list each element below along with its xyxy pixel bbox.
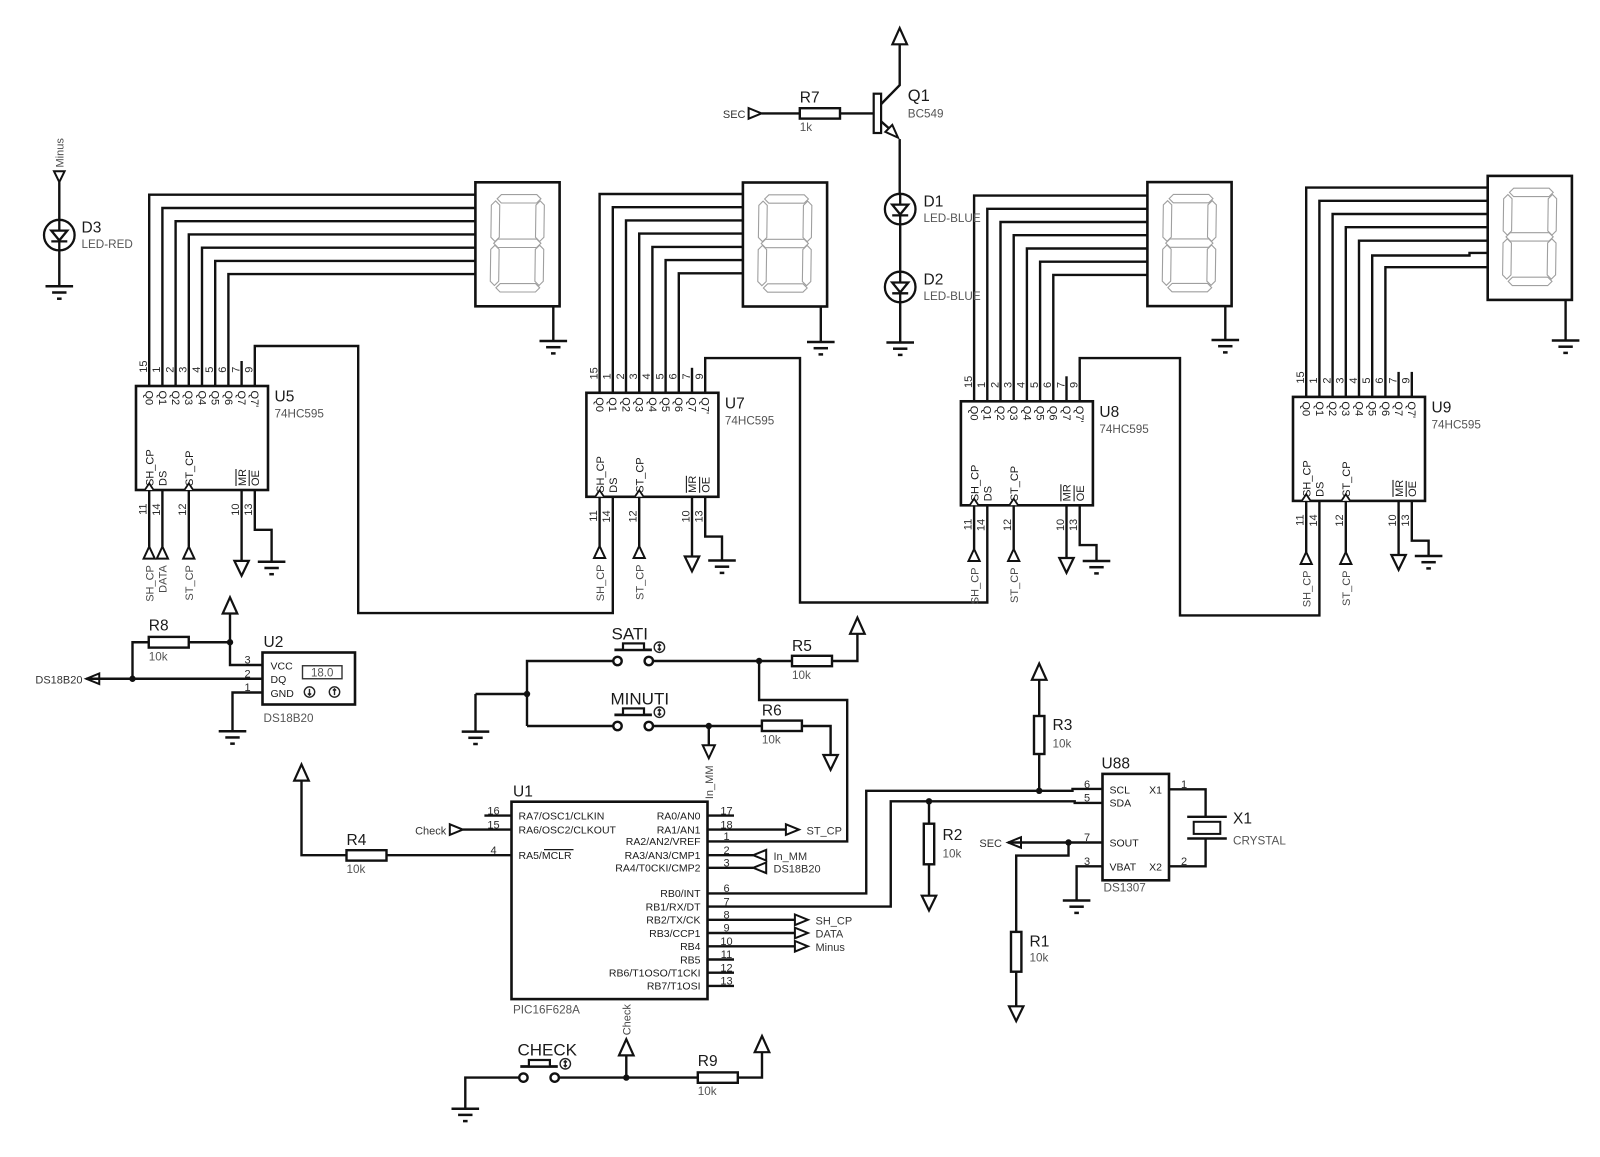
wire SATI junction to RA2	[708, 661, 848, 841]
resistor R2	[924, 824, 934, 865]
svg-text:14: 14	[1308, 514, 1320, 526]
svg-text:7: 7	[1055, 382, 1067, 388]
wire U7 ST_CP pin	[638, 497, 640, 546]
wire Minus to D3	[58, 182, 60, 220]
LED D1	[885, 194, 916, 225]
svg-text:SH_CP: SH_CP	[595, 565, 607, 602]
junction SATI/R5/RA2	[756, 658, 762, 664]
svg-text:1k: 1k	[800, 121, 813, 134]
svg-text:3: 3	[1003, 382, 1015, 388]
svg-text:RB0/INT: RB0/INT	[660, 888, 701, 900]
port DS18B20 (left)	[86, 673, 99, 684]
7-segment display DISP3	[1147, 182, 1231, 306]
wire U7 Q4 to display	[652, 247, 743, 393]
wire R5 to power	[832, 634, 857, 661]
shift register U9	[1293, 397, 1425, 501]
svg-text:OE: OE	[250, 470, 262, 486]
wire U5 SH_CP pin	[148, 490, 150, 547]
svg-text:R8: R8	[149, 618, 169, 635]
svg-text:1: 1	[1308, 377, 1320, 383]
svg-text:6: 6	[1042, 382, 1054, 388]
svg-text:2: 2	[989, 382, 1001, 388]
svg-text:4: 4	[641, 373, 653, 379]
svg-text:9: 9	[244, 367, 256, 373]
svg-text:VCC: VCC	[271, 660, 294, 672]
ground U5 OE	[258, 562, 286, 574]
svg-text:6: 6	[217, 367, 229, 373]
svg-text:Q4: Q4	[1020, 406, 1032, 421]
wire U9 Q3 to display	[1346, 227, 1488, 397]
svg-text:13: 13	[694, 510, 706, 522]
svg-text:RA1/AN1: RA1/AN1	[657, 824, 701, 836]
wire U5 Q7' serial out	[255, 346, 613, 613]
svg-text:Q6: Q6	[1379, 401, 1391, 416]
svg-text:Q3: Q3	[1007, 406, 1019, 421]
wire U5 DS pin	[161, 490, 163, 547]
svg-text:ST_CP: ST_CP	[184, 451, 196, 486]
wire U9 Q2 to display	[1333, 214, 1488, 397]
svg-text:Q1: Q1	[1313, 401, 1325, 416]
svg-text:Q6: Q6	[222, 391, 234, 406]
svg-text:SATI: SATI	[612, 625, 649, 644]
power arrow VCC U2	[223, 597, 238, 613]
svg-text:Q7': Q7'	[248, 391, 260, 408]
wire DISP3 common to ground	[1224, 306, 1226, 340]
svg-text:In_MM: In_MM	[774, 851, 808, 863]
U1 left pin numbers	[487, 805, 499, 857]
shift register U8	[961, 401, 1093, 505]
wire VBAT to ground	[1077, 866, 1103, 900]
svg-text:Q4: Q4	[195, 391, 207, 406]
svg-text:Q0: Q0	[593, 397, 605, 412]
wire U8 Q3 to display	[1014, 235, 1148, 401]
svg-text:Q3: Q3	[1339, 401, 1351, 416]
U8 control pin labels	[969, 465, 1087, 502]
svg-text:7: 7	[1387, 377, 1399, 383]
svg-text:Q7: Q7	[235, 391, 247, 406]
junction MINUTI/In_MM/R6	[706, 723, 712, 729]
svg-text:ST_CP: ST_CP	[1341, 571, 1353, 606]
wire SATI right to junction	[653, 660, 759, 662]
wire U7 Q2 to display	[626, 220, 743, 392]
wire U9 OE pin	[1412, 501, 1429, 556]
svg-text:OE: OE	[1075, 485, 1087, 501]
U8 top pin numbers	[963, 376, 1081, 388]
power-down arrow U9 MR	[1391, 555, 1405, 570]
svg-text:LED-BLUE: LED-BLUE	[924, 212, 981, 225]
junction DQ/R8	[129, 676, 135, 682]
push button SATI	[613, 642, 664, 665]
wire U9 Q7 stub	[1397, 372, 1399, 397]
U8 SH_CP clock mark	[970, 499, 979, 506]
wire DISP1 common to ground	[552, 306, 554, 341]
U9 ST_CP clock mark	[1341, 494, 1350, 501]
svg-text:1: 1	[151, 367, 163, 373]
sensor U2 DS18B20	[263, 653, 356, 705]
U1 right pin numbers	[720, 805, 732, 987]
svg-text:Q6: Q6	[672, 397, 684, 412]
ground buttons	[462, 732, 490, 744]
svg-text:CHECK: CHECK	[518, 1041, 578, 1060]
U7 SH_CP clock mark	[595, 490, 604, 497]
wire D1 to D2	[899, 224, 901, 272]
svg-text:6: 6	[668, 373, 680, 379]
svg-text:MR: MR	[687, 476, 699, 493]
wire U1 pin16 stub	[484, 814, 511, 816]
wire MINUTI left	[527, 725, 613, 727]
wire R8 right to junction	[189, 641, 230, 643]
wire U8 Q7' serial out	[1080, 358, 1320, 615]
svg-text:3: 3	[1335, 377, 1347, 383]
wire U8 Q5 to display	[1040, 262, 1147, 402]
svg-text:9: 9	[694, 373, 706, 379]
7-segment display DISP1	[475, 182, 559, 306]
svg-text:10k: 10k	[1053, 738, 1072, 751]
svg-text:R5: R5	[792, 638, 812, 655]
wire SDA to R2	[928, 801, 930, 823]
port DATA input U5	[157, 547, 168, 559]
power-down arrow R6	[823, 755, 837, 770]
wire Check arrow stem	[625, 1055, 627, 1078]
svg-text:RA3/AN3/CMP1: RA3/AN3/CMP1	[625, 850, 701, 862]
wire R6 to down arrow	[802, 726, 831, 755]
ground DISP2	[807, 342, 835, 354]
svg-text:7: 7	[681, 373, 693, 379]
svg-text:11: 11	[138, 504, 150, 515]
svg-text:RB4: RB4	[680, 941, 701, 953]
wire ground stem	[474, 694, 476, 732]
microcontroller U1 PIC16F628A	[512, 802, 708, 999]
svg-text:Q2: Q2	[994, 406, 1006, 421]
svg-text:RA2/AN2/VREF: RA2/AN2/VREF	[626, 836, 701, 848]
svg-text:SH_CP: SH_CP	[145, 565, 157, 602]
svg-text:SEC: SEC	[723, 109, 746, 121]
svg-text:DS18B20: DS18B20	[35, 674, 82, 686]
svg-text:10: 10	[1387, 514, 1399, 526]
wire U8 SH_CP pin	[973, 505, 975, 549]
resistor R4	[347, 850, 387, 860]
resistor R3	[1034, 716, 1044, 754]
shift register U5	[136, 386, 268, 490]
wire U1 pin6 to SCL	[708, 789, 1103, 894]
svg-text:Q7: Q7	[685, 397, 697, 412]
resistor R9	[698, 1072, 738, 1082]
U5 bottom pin numbers	[138, 504, 256, 516]
svg-text:R4: R4	[347, 832, 367, 849]
port Check input	[450, 824, 463, 835]
ground U8 OE	[1083, 561, 1111, 573]
svg-text:ST_CP: ST_CP	[1341, 461, 1353, 496]
ground CHECK	[452, 1109, 480, 1121]
svg-text:RB1/RX/DT: RB1/RX/DT	[646, 901, 701, 913]
svg-text:4: 4	[1016, 382, 1028, 388]
port ST_CP input U9	[1340, 552, 1351, 564]
svg-text:RA7/OSC1/CLKIN: RA7/OSC1/CLKIN	[519, 810, 605, 822]
wire power to R4	[302, 781, 347, 856]
svg-text:DS18B20: DS18B20	[774, 864, 821, 876]
svg-text:U5: U5	[275, 389, 295, 406]
svg-text:10k: 10k	[698, 1085, 717, 1098]
svg-text:DS: DS	[608, 478, 620, 493]
wire U8 Q0 to display	[974, 196, 1147, 402]
svg-text:Q2: Q2	[619, 397, 631, 412]
wire U9 Q1 to display	[1319, 201, 1487, 397]
svg-text:11: 11	[963, 519, 975, 530]
svg-text:14: 14	[601, 510, 613, 522]
wire U8 Q6 to display	[1053, 275, 1147, 401]
power arrow R9	[755, 1036, 770, 1052]
wire U1 pin3 to DS18B20	[708, 867, 754, 869]
svg-text:74HC595: 74HC595	[275, 408, 325, 421]
svg-text:MR: MR	[1394, 480, 1406, 497]
port SEC input (top)	[749, 108, 762, 119]
U2 pin numbers	[244, 655, 250, 695]
resistor R6	[762, 721, 802, 731]
junction R2/SDA	[926, 798, 932, 804]
shift register U7	[586, 393, 718, 497]
U5 control pin labels	[144, 449, 262, 486]
wire DISP2 common to ground	[820, 307, 822, 343]
wire U9 Q0 to display	[1306, 188, 1488, 397]
transistor Q1 base bar	[874, 94, 881, 133]
wire U7 Q0 to display	[600, 194, 743, 393]
wire R9 to power	[738, 1052, 762, 1077]
wire U7 Q7 stub	[691, 368, 693, 393]
wire U9 SH_CP pin	[1305, 501, 1307, 552]
U5 ST_CP clock mark	[184, 483, 193, 490]
svg-text:U88: U88	[1102, 755, 1130, 772]
U1 right pin names	[609, 810, 701, 992]
svg-text:Q4: Q4	[1352, 401, 1364, 416]
svg-text:X1: X1	[1233, 811, 1252, 828]
U9 SH_CP clock mark	[1302, 494, 1311, 501]
power-down arrow U7 MR	[685, 557, 699, 572]
wire U5 Q7 stub	[240, 361, 242, 386]
LED D3	[44, 220, 75, 251]
power arrow R5	[850, 618, 865, 634]
svg-text:DATA: DATA	[158, 564, 170, 592]
wire SEC to R7	[762, 112, 800, 114]
wire U1 pin15 to Check	[463, 828, 512, 830]
wire Q1 emitter	[881, 121, 889, 128]
port DS18B20 input (U1)	[753, 863, 766, 874]
port SH_CP input U9	[1301, 552, 1312, 564]
U5 output pin labels Q0-Q7'	[143, 391, 261, 408]
svg-text:74HC595: 74HC595	[725, 414, 775, 427]
svg-text:U7: U7	[725, 395, 745, 412]
svg-text:ST_CP: ST_CP	[1009, 568, 1021, 603]
power arrow R4	[294, 764, 309, 780]
svg-text:DATA: DATA	[816, 929, 844, 941]
port ST_CP input U8	[1008, 549, 1019, 561]
svg-text:RA5/MCLR: RA5/MCLR	[519, 850, 573, 862]
U7 control pin labels	[595, 456, 713, 493]
svg-text:LED-BLUE: LED-BLUE	[924, 290, 981, 303]
U9 bottom pin numbers	[1295, 514, 1413, 526]
svg-text:SOUT: SOUT	[1110, 838, 1140, 850]
svg-text:RB3/CCP1: RB3/CCP1	[649, 928, 701, 940]
wire DISP4 common to ground	[1564, 300, 1566, 341]
wire junction to R5	[759, 660, 792, 662]
port SH_CP input U7	[594, 546, 605, 558]
port ST_CP output	[786, 824, 799, 835]
wire U8 Q7 stub	[1065, 376, 1067, 401]
svg-text:13: 13	[243, 504, 255, 516]
svg-text:12: 12	[1002, 519, 1014, 531]
resistor R8	[149, 637, 189, 648]
svg-text:12: 12	[177, 504, 189, 516]
svg-text:Q5: Q5	[1034, 406, 1046, 421]
svg-text:6: 6	[1374, 377, 1386, 383]
svg-text:CRYSTAL: CRYSTAL	[1233, 835, 1286, 848]
svg-text:9: 9	[1401, 377, 1413, 383]
wire U1 pin13 stub	[708, 985, 735, 987]
wire Q1 collector	[881, 44, 900, 104]
wire X1 pin to crystal	[1169, 789, 1206, 817]
svg-text:X1: X1	[1149, 784, 1162, 796]
svg-text:4: 4	[1348, 377, 1360, 383]
svg-text:Q5: Q5	[659, 397, 671, 412]
svg-text:DS18B20: DS18B20	[264, 712, 315, 725]
svg-text:1: 1	[602, 373, 614, 379]
svg-text:DQ: DQ	[271, 674, 287, 686]
svg-text:Check: Check	[622, 1004, 634, 1036]
wire junction to VCC pin	[230, 642, 263, 665]
U9 top pin numbers	[1295, 371, 1413, 383]
U5 top pin numbers	[138, 360, 256, 372]
wire MINUTI right	[653, 725, 762, 727]
svg-text:SH_CP: SH_CP	[969, 465, 981, 502]
U88 pin numbers	[1084, 779, 1187, 868]
svg-text:Q5: Q5	[209, 391, 221, 406]
wire U9 Q4 to display	[1359, 241, 1488, 397]
svg-text:Q7': Q7'	[1405, 401, 1417, 418]
wire U7 SH_CP pin	[598, 497, 600, 546]
svg-text:2: 2	[615, 373, 627, 379]
wire U1 pin12 stub	[708, 972, 735, 974]
port In_MM input (U1)	[753, 850, 766, 861]
svg-text:13: 13	[1068, 519, 1080, 531]
power-down arrow U5 MR	[234, 561, 248, 576]
svg-text:Q2: Q2	[169, 391, 181, 406]
wire CHECK right to R9	[559, 1076, 698, 1078]
7-segment display DISP2	[743, 183, 827, 307]
wire U9 Q7' stub	[1411, 372, 1413, 397]
svg-text:Q7': Q7'	[699, 397, 711, 414]
wire U7 Q7' serial out	[705, 358, 987, 602]
svg-text:OE: OE	[700, 477, 712, 493]
svg-text:RB6/T1OSO/T1CKI: RB6/T1OSO/T1CKI	[609, 968, 701, 980]
svg-text:2: 2	[1321, 377, 1333, 383]
wire U9 MR pin	[1397, 501, 1399, 555]
svg-text:Q0: Q0	[1300, 401, 1312, 416]
svg-text:5: 5	[654, 373, 666, 379]
power arrow Check	[619, 1039, 634, 1055]
svg-text:R3: R3	[1053, 717, 1073, 734]
7-segment display DISP4	[1488, 176, 1572, 300]
wire R1 to down arrow	[1015, 972, 1017, 1007]
svg-text:SH_CP: SH_CP	[1301, 460, 1313, 497]
svg-text:10k: 10k	[347, 863, 366, 876]
svg-text:X2: X2	[1149, 861, 1162, 873]
svg-text:15: 15	[963, 376, 975, 388]
wire U5 Q2 to display	[176, 221, 476, 386]
port Minus (down arrow)	[54, 171, 65, 182]
svg-text:5: 5	[1361, 377, 1373, 383]
U88 pin names	[1110, 784, 1163, 873]
wire power to R3	[1038, 680, 1040, 716]
port DATA output	[795, 928, 808, 939]
ground U88 VBAT	[1063, 901, 1091, 913]
wire U7 Q5 to display	[666, 260, 743, 393]
wire U7 OE pin	[705, 497, 722, 561]
svg-text:11: 11	[588, 510, 600, 521]
wire U1 pin18 to ST_CP	[708, 828, 786, 830]
port SH_CP input U8	[969, 549, 980, 561]
U7 bottom pin numbers	[588, 510, 706, 522]
wire U1 pin10 to Minus	[708, 945, 795, 947]
wire In_MM drop	[708, 726, 710, 745]
svg-text:R1: R1	[1030, 934, 1050, 951]
wire U9 ST_CP pin	[1345, 501, 1347, 552]
svg-text:ST_CP: ST_CP	[807, 825, 842, 837]
ground DISP4	[1552, 341, 1580, 353]
wire SEC to SOUT	[1008, 841, 1103, 843]
wire U8 ST_CP pin	[1013, 505, 1015, 549]
svg-text:1: 1	[723, 831, 729, 843]
crystal X1	[1187, 817, 1227, 839]
ground D2	[886, 343, 914, 355]
wire SATI left	[527, 661, 613, 726]
U7 output pin labels Q0-Q7'	[593, 397, 711, 414]
svg-text:Q7': Q7'	[1073, 406, 1085, 423]
svg-text:SH_CP: SH_CP	[144, 449, 156, 486]
svg-text:ST_CP: ST_CP	[184, 565, 196, 600]
svg-text:2: 2	[244, 668, 250, 680]
svg-text:GND: GND	[271, 688, 295, 700]
svg-text:1: 1	[976, 382, 988, 388]
wire U5 Q5 to display	[215, 261, 475, 386]
svg-text:14: 14	[976, 519, 988, 531]
svg-text:10k: 10k	[149, 651, 168, 664]
rtc U88 DS1307	[1103, 774, 1170, 880]
svg-text:RA6/OSC2/CLKOUT: RA6/OSC2/CLKOUT	[519, 824, 617, 836]
ground U7 OE	[708, 561, 736, 573]
wire U8 Q1 to display	[987, 209, 1147, 401]
wire U9 Q6 to display	[1385, 267, 1487, 397]
junction buttons/ground	[524, 691, 530, 697]
svg-text:7: 7	[230, 367, 242, 373]
wire U5 Q6 to display	[228, 274, 475, 386]
wire U7 Q3 to display	[639, 234, 743, 393]
junction SEC/R1	[1065, 839, 1071, 845]
U7 ST_CP clock mark	[635, 490, 644, 497]
svg-text:3: 3	[628, 373, 640, 379]
wire GND pin U2	[233, 693, 263, 732]
svg-text:R9: R9	[698, 1053, 718, 1070]
svg-text:SH_CP: SH_CP	[1302, 571, 1314, 608]
svg-text:15: 15	[1295, 371, 1307, 383]
wire U8 OE pin	[1080, 505, 1097, 561]
svg-text:Q0: Q0	[143, 391, 155, 406]
svg-text:10: 10	[230, 504, 242, 516]
svg-text:Q1: Q1	[981, 406, 993, 421]
svg-text:5: 5	[204, 367, 216, 373]
power-down arrow R2	[922, 896, 936, 911]
svg-text:RB2/TX/CK: RB2/TX/CK	[646, 915, 700, 927]
svg-text:SDA: SDA	[1110, 798, 1132, 810]
wire junction to R1	[1016, 843, 1068, 932]
